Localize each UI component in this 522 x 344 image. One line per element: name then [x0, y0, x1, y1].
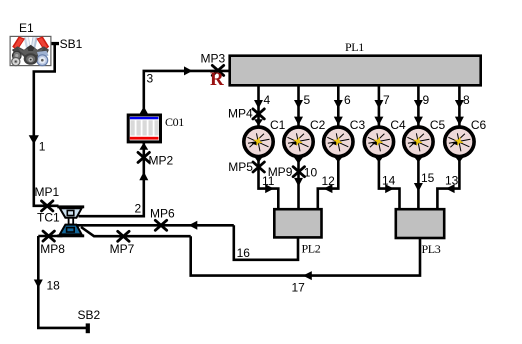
- svg-text:TC1: TC1: [37, 211, 60, 225]
- svg-text:2: 2: [135, 202, 142, 216]
- svg-text:15: 15: [421, 171, 435, 185]
- svg-text:C4: C4: [390, 118, 406, 132]
- svg-text:17: 17: [292, 281, 306, 295]
- svg-text:MP4: MP4: [228, 107, 253, 121]
- svg-text:PL3: PL3: [422, 242, 441, 256]
- svg-text:11: 11: [262, 174, 275, 188]
- svg-text:18: 18: [47, 279, 61, 293]
- svg-text:PL2: PL2: [302, 242, 321, 256]
- svg-text:13: 13: [445, 174, 459, 188]
- svg-text:16: 16: [237, 246, 251, 260]
- svg-text:4: 4: [264, 93, 271, 107]
- svg-text:MP2: MP2: [149, 154, 174, 168]
- svg-text:MP5: MP5: [228, 160, 253, 174]
- svg-text:7: 7: [383, 93, 390, 107]
- svg-text:MP8: MP8: [40, 242, 65, 256]
- svg-text:C01: C01: [165, 115, 184, 129]
- svg-text:C3: C3: [350, 118, 366, 132]
- svg-text:C2: C2: [310, 118, 326, 132]
- svg-text:MP6: MP6: [150, 207, 175, 221]
- svg-text:C6: C6: [471, 118, 487, 132]
- svg-text:5: 5: [304, 93, 311, 107]
- svg-text:PL1: PL1: [345, 40, 364, 54]
- svg-text:12: 12: [322, 174, 336, 188]
- svg-text:6: 6: [344, 93, 351, 107]
- svg-text:SB2: SB2: [78, 308, 101, 322]
- svg-text:1: 1: [39, 140, 46, 154]
- svg-text:3: 3: [147, 72, 154, 86]
- svg-text:9: 9: [423, 93, 430, 107]
- svg-text:C1: C1: [270, 118, 286, 132]
- svg-text:14: 14: [382, 174, 396, 188]
- svg-text:R: R: [210, 69, 224, 90]
- svg-text:SB1: SB1: [60, 37, 83, 51]
- svg-text:MP3: MP3: [201, 52, 226, 66]
- svg-text:MP7: MP7: [110, 242, 135, 256]
- svg-text:C5: C5: [430, 118, 446, 132]
- svg-text:8: 8: [463, 93, 470, 107]
- svg-text:E1: E1: [19, 21, 34, 35]
- svg-text:10: 10: [304, 165, 318, 179]
- svg-text:MP1: MP1: [35, 185, 60, 199]
